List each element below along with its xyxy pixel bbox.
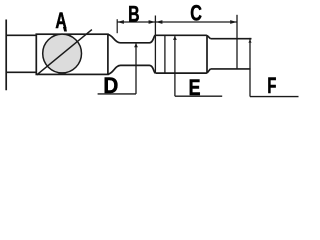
label A leader tick — [63, 27, 67, 32]
leader D horizontal — [98, 93, 136, 95]
leader E arrowhead — [173, 36, 177, 40]
shaft section C bottom line — [155, 72, 207, 74]
leader F arrowhead — [248, 40, 251, 43]
leader F vertical — [249, 38, 251, 97]
groove bottom profile with fillets — [108, 65, 155, 74]
shaft left stub top line — [6, 34, 37, 36]
step bottom chamfer — [207, 69, 210, 73]
dimension B right arrowhead — [149, 20, 156, 24]
bearing ball circle — [43, 34, 82, 73]
svg-text:B: B — [128, 3, 139, 27]
bearing diagonal slash — [37, 30, 92, 75]
shaft left stub bottom line — [6, 71, 37, 73]
dimension C right arrowhead — [230, 20, 237, 24]
svg-text:E: E — [189, 76, 201, 100]
svg-text:F: F — [267, 73, 276, 98]
step top chamfer — [207, 35, 210, 38]
leader D vertical — [135, 44, 137, 94]
leader D arrowhead — [134, 43, 138, 47]
small section bottom line — [210, 68, 250, 70]
bearing housing rectangle — [36, 34, 108, 74]
shoulder line 2 — [164, 35, 166, 73]
shoulder line 1 — [154, 16, 156, 74]
leader E horizontal — [175, 95, 222, 97]
dimension C line — [156, 21, 237, 23]
svg-text:C: C — [190, 2, 202, 26]
leader E vertical — [174, 36, 176, 96]
step face vertical — [206, 35, 208, 73]
dimension B extension line left — [116, 19, 118, 33]
left end face vertical line — [5, 20, 7, 91]
small section top line — [210, 38, 251, 40]
dimension C extension line right — [236, 15, 238, 69]
dimension C left arrowhead — [156, 20, 163, 24]
dimension B left arrowhead — [117, 20, 124, 24]
dimension B line — [117, 21, 155, 23]
shaft section C top line — [155, 34, 207, 36]
leader F horizontal — [250, 96, 299, 98]
groove top profile with fillets — [108, 34, 155, 42]
svg-text:D: D — [103, 73, 118, 98]
